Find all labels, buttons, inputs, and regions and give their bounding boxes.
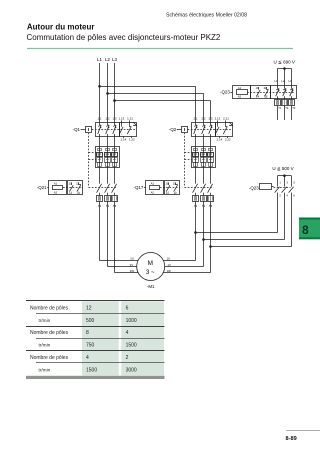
breaker Q2 clamp bottom pole 3 xyxy=(209,163,213,167)
table shading col3 xyxy=(121,301,164,375)
breaker Q1 thermal trip pole 3 xyxy=(112,158,118,163)
svg-text:5: 5 xyxy=(293,180,295,184)
svg-text:2: 2 xyxy=(126,355,129,361)
Q23 top output wires xyxy=(277,106,279,121)
wires bar to Q23 top xyxy=(277,69,279,86)
svg-text:-Q23: -Q23 xyxy=(249,185,259,190)
breaker Q1 current limiter pole 3 xyxy=(112,196,118,202)
breaker Q2 trip block box xyxy=(192,147,216,168)
wire L3 vertical xyxy=(114,63,116,122)
breaker Q2 trip flag xyxy=(229,122,233,126)
wire L2 vertical xyxy=(107,63,109,122)
footer rule xyxy=(286,430,320,432)
breaker Q2 aux stubs + labels xyxy=(217,120,219,124)
svg-text:-Q21: -Q21 xyxy=(37,185,47,190)
breaker Q1 clamp bottom pole 1 xyxy=(98,163,102,167)
breaker Q1 aux stubs + labels xyxy=(121,120,123,124)
svg-text:6: 6 xyxy=(293,193,295,197)
breaker Q2 current limiter pole 1 xyxy=(193,196,199,202)
breaker Q1 clamp bottom pole 2 xyxy=(106,163,110,167)
svg-text:12: 12 xyxy=(86,305,92,311)
svg-text:A1: A1 xyxy=(54,181,58,185)
junction Q23/Q2 line 1 xyxy=(194,231,197,234)
junction Q23/Q2 line 2 xyxy=(202,238,205,241)
breaker Q1 trip linkage stubs dashed xyxy=(89,152,96,154)
breaker Q1 trip flag xyxy=(133,122,137,126)
svg-text:2V: 2V xyxy=(130,263,134,267)
Q23 bottom output wires with elbows xyxy=(277,193,279,233)
Q23 overload element 2 xyxy=(284,98,286,99)
wire Q1 T1 to motor xyxy=(99,201,101,260)
Q23 aux contact 13-14 xyxy=(258,87,260,90)
wire L1 vertical xyxy=(99,63,101,122)
svg-text:3000: 3000 xyxy=(126,368,137,374)
breaker Q2 wires to switch section xyxy=(195,168,197,181)
breaker Q2 trip pole 2 wire xyxy=(203,147,205,168)
breaker Q1 clamp bottom pole 3 xyxy=(113,163,117,167)
svg-text:1.3: 1.3 xyxy=(112,117,116,121)
svg-text:4: 4 xyxy=(126,330,129,336)
breaker Q1 magnetic trip I> pole 2 xyxy=(105,153,111,157)
svg-text:21: 21 xyxy=(76,182,79,185)
breaker Q2 clamp top pole 3 xyxy=(209,149,213,151)
svg-text:2U: 2U xyxy=(130,257,134,261)
breaker Q2 aux box xyxy=(216,123,233,137)
wire L1 feeder to -Q2 xyxy=(100,86,196,88)
contactor -Q21 aux contact 13-14 xyxy=(71,182,73,185)
table rules xyxy=(26,300,165,302)
breaker Q2 magnetic trip I> pole 3 xyxy=(208,153,214,157)
contactor -Q21 aux box xyxy=(68,181,83,195)
svg-text:Nombre de pôles: Nombre de pôles xyxy=(30,355,69,361)
breaker Q1 switch contact 1 xyxy=(99,181,101,184)
svg-text:8: 8 xyxy=(86,330,89,336)
svg-text:A2: A2 xyxy=(151,191,155,195)
svg-text:M: M xyxy=(148,260,153,267)
Q23 overload element 1 xyxy=(277,98,279,99)
svg-text:T1: T1 xyxy=(278,106,282,110)
svg-text:T2: T2 xyxy=(285,106,289,110)
contactor -Q17 aux linkage dashed xyxy=(160,187,180,189)
svg-text:1.22: 1.22 xyxy=(129,138,135,142)
wire Q1 T3 to motor xyxy=(114,201,116,272)
breaker Q1 clamp top pole 1 xyxy=(98,149,102,151)
Q23 bottom contact 3-4 xyxy=(284,176,286,184)
svg-text:L1: L1 xyxy=(97,57,102,62)
svg-text:Nombre de pôles: Nombre de pôles xyxy=(30,305,69,311)
Q23 main contact 1 xyxy=(277,86,279,89)
svg-text:A1: A1 xyxy=(238,86,242,90)
svg-text:2.1: 2.1 xyxy=(193,117,197,121)
svg-text:Nombre de pôles: Nombre de pôles xyxy=(30,330,69,336)
svg-text:2.3: 2.3 xyxy=(208,117,212,121)
supply bar 690V xyxy=(278,68,292,70)
svg-text:8-89: 8-89 xyxy=(286,436,297,442)
breaker Q2 clamp bottom pole 1 xyxy=(194,163,198,167)
contactor -Q17 aux contact 13-14 xyxy=(168,182,170,185)
breaker Q2 clamp bottom pole 2 xyxy=(202,163,206,167)
svg-text:1.14: 1.14 xyxy=(121,138,127,142)
breaker Q1 trip pole 2 wire xyxy=(107,147,109,168)
svg-text:500: 500 xyxy=(86,318,95,324)
Q23 coil box xyxy=(233,86,251,99)
svg-text:T3: T3 xyxy=(292,106,296,110)
breaker Q1 main contact 3 xyxy=(114,122,116,125)
svg-text:Autour du moteur: Autour du moteur xyxy=(27,23,95,32)
svg-text:2.2: 2.2 xyxy=(201,117,205,121)
Q23 main contacts box xyxy=(271,86,297,99)
breaker Q1 magnetic trip I> pole 3 xyxy=(112,153,118,157)
Q23 aux contact 21-22 xyxy=(266,87,268,90)
svg-text:tr/min: tr/min xyxy=(39,368,51,373)
breaker Q2 magnetic trip I> pole 2 xyxy=(201,153,207,157)
Q23 linkage dashed xyxy=(247,92,294,94)
svg-text:4: 4 xyxy=(86,355,89,361)
green rule xyxy=(27,48,293,50)
breaker Q1 current limiter pole 1 xyxy=(97,196,103,202)
wire L3 feeder to -Q2 xyxy=(115,100,211,102)
breaker Q1 pole wires to trip block xyxy=(99,136,101,146)
svg-text:3 ~: 3 ~ xyxy=(146,270,155,276)
junction L2 xyxy=(106,92,109,95)
svg-text:-Q2: -Q2 xyxy=(169,127,177,132)
svg-text:2: 2 xyxy=(279,193,281,197)
breaker Q2 aux contact NO xyxy=(217,124,219,127)
breaker Q1 clamp top pole 3 xyxy=(113,149,117,151)
svg-text:3: 3 xyxy=(286,180,288,184)
Q23 bottom contact 1-2 xyxy=(277,176,279,184)
breaker Q1 main contact 1 xyxy=(99,122,101,125)
Q23 main contact 2 xyxy=(284,86,286,89)
breaker Q2 switch contact 2 xyxy=(203,181,205,184)
breaker Q1 thermal trip pole 2 xyxy=(105,158,111,163)
breaker Q2 thermal trip pole 1 xyxy=(193,158,199,163)
svg-text:1V: 1V xyxy=(167,263,171,267)
wire Q2 T2 to motor xyxy=(203,201,205,266)
breaker Q2 switch contact 3 xyxy=(210,181,212,184)
breaker Q1 aux box xyxy=(120,123,137,137)
wire Q2 T1 to motor xyxy=(195,201,197,260)
wire Q2 T3 to motor xyxy=(210,201,212,272)
breaker Q1 trip pole 3 wire xyxy=(114,147,116,168)
breaker Q1 magnetic trip I> pole 1 xyxy=(97,153,103,157)
breaker Q1 wires to switch section xyxy=(99,168,101,181)
junction Q23/Q2 line 3 xyxy=(209,245,212,248)
breaker Q2 main contact 1 xyxy=(195,122,197,125)
svg-text:6: 6 xyxy=(126,305,129,311)
supply bar 500V xyxy=(278,175,292,177)
breaker Q2 linkage dashed xyxy=(188,129,233,131)
breaker Q2 clamp top pole 2 xyxy=(202,149,206,151)
contactor -Q17 aux box xyxy=(165,181,180,195)
contactor -Q17 aux contact 21-22 xyxy=(175,182,177,185)
Q23 overload element 3 xyxy=(291,98,293,99)
breaker Q1 current limiter pole 2 xyxy=(105,196,111,202)
chapter tab 8 xyxy=(299,218,320,240)
motor M1 circle xyxy=(137,253,165,281)
junction L1 xyxy=(98,85,101,88)
breaker Q2 switch contact 1 xyxy=(195,181,197,184)
svg-text:-Q1: -Q1 xyxy=(73,127,81,132)
breaker Q2 trip linkage stubs dashed xyxy=(185,152,192,154)
mechanical link Q2 dashed vertical xyxy=(184,133,186,188)
breaker Q2 switch linkage dashed xyxy=(185,187,214,189)
svg-text:4: 4 xyxy=(286,193,288,197)
svg-text:1.21: 1.21 xyxy=(127,117,133,121)
breaker Q1 trip pole 1 wire xyxy=(99,147,101,168)
svg-text:1W: 1W xyxy=(167,269,172,273)
Q23 main contact 3 xyxy=(291,86,293,89)
operator square Q1 xyxy=(86,127,92,133)
breaker Q2 trip pole 1 wire xyxy=(195,147,197,168)
junction on bar 500V xyxy=(283,174,286,177)
svg-text:750: 750 xyxy=(86,343,95,349)
svg-text:1.1: 1.1 xyxy=(97,117,101,121)
svg-text:Commutation de pôles avec disj: Commutation de pôles avec disjoncteurs-m… xyxy=(27,33,221,42)
breaker Q2 trip pole 3 wire xyxy=(210,147,212,168)
Q23 bottom contact 5-6 xyxy=(291,176,293,184)
breaker Q2 current limiter pole 2 xyxy=(201,196,207,202)
svg-text:A2: A2 xyxy=(238,95,242,99)
contactor -Q17 coil box xyxy=(146,181,164,195)
operator square Q2 xyxy=(182,127,188,133)
breaker Q2 pole wires to trip block xyxy=(195,136,197,146)
svg-text:2.22: 2.22 xyxy=(225,138,231,142)
svg-text:1.2: 1.2 xyxy=(105,117,109,121)
svg-text:-Q23: -Q23 xyxy=(220,90,230,95)
svg-text:U ≦ 690 V: U ≦ 690 V xyxy=(274,59,295,64)
svg-text:2.14: 2.14 xyxy=(217,138,223,142)
svg-text:1500: 1500 xyxy=(126,343,137,349)
svg-text:1.13: 1.13 xyxy=(119,117,125,121)
breaker Q1 aux contact NC xyxy=(129,124,131,127)
svg-text:1000: 1000 xyxy=(126,318,137,324)
breaker Q1 switch contact 2 xyxy=(107,181,109,184)
breaker Q1 main box xyxy=(96,123,120,137)
svg-text:U ≦ 500 V: U ≦ 500 V xyxy=(272,166,293,171)
breaker Q2 main box xyxy=(192,123,216,137)
breaker Q2 main contact 3 xyxy=(210,122,212,125)
svg-text:L3: L3 xyxy=(112,57,117,62)
breaker Q1 linkage dashed xyxy=(92,129,136,131)
breaker Q2 clamp top pole 1 xyxy=(194,149,198,151)
breaker Q1 switch contact 3 xyxy=(114,181,116,184)
svg-text:1: 1 xyxy=(279,180,281,184)
table bottom bar xyxy=(26,376,165,379)
breaker Q1 trip block box xyxy=(96,147,120,168)
svg-text:tr/min: tr/min xyxy=(39,318,51,323)
breaker Q1 switch linkage dashed xyxy=(89,187,118,189)
contactor -Q21 aux contact 21-22 xyxy=(78,182,80,185)
svg-text:8: 8 xyxy=(302,223,309,237)
contactor -Q21 aux linkage dashed xyxy=(63,187,83,189)
svg-text:2W: 2W xyxy=(130,269,135,273)
Q23 bottom linkage dashed xyxy=(274,187,291,189)
breaker Q2 main contact 2 xyxy=(203,122,205,125)
svg-text:A1: A1 xyxy=(151,181,155,185)
Q23 bottom coil xyxy=(260,184,272,190)
svg-text:Schémas électriques Moeller 02: Schémas électriques Moeller 02/08 xyxy=(166,12,247,18)
svg-text:-M1: -M1 xyxy=(147,284,155,289)
svg-text:A2: A2 xyxy=(54,191,58,195)
wire Q1 T2 to motor xyxy=(107,201,109,266)
breaker Q1 clamp top pole 2 xyxy=(106,149,110,151)
svg-text:2.21: 2.21 xyxy=(223,117,229,121)
junction on bar xyxy=(283,67,286,70)
table shading col2 xyxy=(82,301,119,375)
breaker Q1 main contact 2 xyxy=(107,122,109,125)
svg-text:L2: L2 xyxy=(105,57,110,62)
svg-text:2.13: 2.13 xyxy=(215,117,221,121)
breaker Q2 thermal trip pole 2 xyxy=(201,158,207,163)
svg-text:1500: 1500 xyxy=(86,368,97,374)
breaker Q2 aux contact NC xyxy=(225,124,227,127)
breaker Q1 thermal trip pole 1 xyxy=(97,158,103,163)
svg-text:tr/min: tr/min xyxy=(39,343,51,348)
breaker Q2 current limiter pole 3 xyxy=(208,196,214,202)
svg-text:-Q17: -Q17 xyxy=(134,185,144,190)
mechanical link Q1 dashed vertical xyxy=(88,133,90,188)
wire L2 feeder to -Q2 xyxy=(108,93,204,95)
svg-text:1U: 1U xyxy=(167,257,171,261)
contactor -Q21 coil box xyxy=(49,181,67,195)
breaker Q2 magnetic trip I> pole 1 xyxy=(193,153,199,157)
breaker Q1 aux contact NO xyxy=(121,124,123,127)
breaker Q2 thermal trip pole 3 xyxy=(208,158,214,163)
Q23 aux box xyxy=(251,86,271,99)
junction L3 xyxy=(113,99,116,102)
